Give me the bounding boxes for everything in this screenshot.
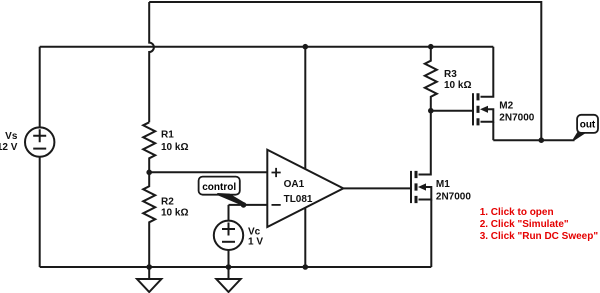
svg-text:M2: M2 [499,101,513,112]
svg-text:OA1: OA1 [284,179,305,190]
svg-text:2N7000: 2N7000 [499,113,534,124]
svg-text:2. Click "Simulate": 2. Click "Simulate" [480,219,569,230]
svg-text:M1: M1 [436,179,450,190]
svg-text:10 kΩ: 10 kΩ [161,207,188,218]
svg-text:3. Click "Run DC Sweep": 3. Click "Run DC Sweep" [480,231,599,242]
svg-text:R1: R1 [161,130,174,141]
svg-text:out: out [580,119,596,130]
svg-text:12 V: 12 V [0,142,18,153]
svg-text:1 V: 1 V [248,237,263,248]
svg-text:10 kΩ: 10 kΩ [161,142,188,153]
svg-text:1. Click to open: 1. Click to open [480,207,554,218]
svg-text:control: control [202,182,236,193]
svg-text:Vs: Vs [5,131,18,142]
svg-text:R2: R2 [161,197,174,208]
svg-text:10 kΩ: 10 kΩ [444,80,471,91]
svg-text:2N7000: 2N7000 [436,191,471,202]
svg-text:R3: R3 [444,69,457,80]
svg-text:TL081: TL081 [284,194,313,205]
